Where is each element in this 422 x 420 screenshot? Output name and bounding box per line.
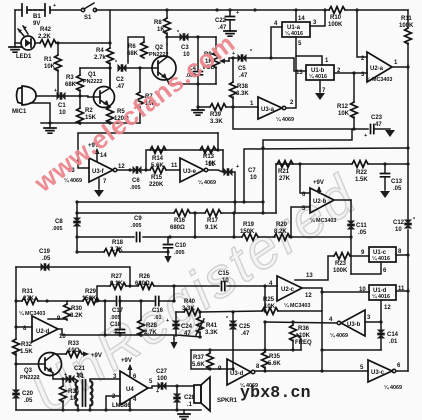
wire mic out (36, 95, 56, 97)
wire U3-e out to C7 (208, 150, 223, 172)
svg-text:¼ 4069: ¼ 4069 (384, 384, 402, 391)
ground C23 (385, 130, 395, 137)
svg-text:U4: U4 (126, 387, 134, 393)
svg-text:C24: C24 (181, 324, 193, 330)
resistor R38 (232, 58, 234, 107)
verticals between rails (195, 213, 234, 237)
resistor R29 (83, 298, 99, 305)
wire battery negative (15, 10, 21, 43)
svg-text:C19: C19 (39, 249, 51, 255)
resistor R23 (334, 253, 350, 260)
resistor R33 (66, 351, 82, 358)
svg-text:5.6K: 5.6K (192, 362, 205, 368)
ground (224, 31, 236, 36)
svg-text:C8: C8 (55, 219, 63, 225)
svg-text:C27: C27 (156, 369, 168, 375)
resistor R15 (150, 167, 166, 174)
transistor Q2 (152, 56, 176, 80)
wire C1 to Q1 base (66, 96, 88, 97)
svg-text:.05: .05 (393, 186, 402, 192)
svg-text:10K: 10K (299, 333, 311, 339)
wire U4 out (148, 386, 194, 388)
resistor R32 (13, 339, 20, 355)
wire U3-a out (286, 56, 296, 108)
svg-text:LM386: LM386 (112, 403, 131, 409)
op-amp U2-a (367, 52, 392, 82)
svg-text:2.7K: 2.7K (110, 247, 123, 253)
resistor R12 (353, 73, 355, 129)
svg-text:C20: C20 (22, 391, 34, 397)
svg-text:1K: 1K (157, 27, 165, 33)
wire C5 to U1 switches (247, 58, 306, 71)
svg-text:10K: 10K (338, 111, 350, 117)
svg-text:C22: C22 (215, 18, 227, 24)
wire Q3 collector to R33 (53, 354, 66, 355)
svg-text:¼ 4069: ¼ 4069 (330, 332, 348, 339)
wire R1 R2 to rail (79, 96, 81, 108)
ground (9, 47, 21, 52)
LED1 (21, 36, 35, 50)
T1 leads (78, 379, 120, 410)
wiper wire to C5 (229, 58, 237, 61)
svg-text:¼ MC3403: ¼ MC3403 (310, 217, 336, 224)
capacitor C9 (137, 233, 140, 242)
svg-text:10Ω: 10Ω (68, 348, 80, 354)
svg-text:5.6K: 5.6K (151, 163, 164, 169)
capacitor C24 (175, 312, 177, 321)
resistor R30 (66, 301, 68, 304)
svg-text:¼ 4016: ¼ 4016 (285, 30, 303, 37)
capacitor C19 (41, 263, 50, 271)
wire U1-d pin11 (396, 290, 408, 292)
bus line B y140 (263, 130, 352, 213)
resistor R19 (242, 234, 258, 241)
svg-text:12: 12 (118, 164, 125, 170)
svg-text:1.5K: 1.5K (355, 177, 368, 183)
svg-text:R10: R10 (330, 15, 342, 21)
capacitor C23 (371, 125, 374, 134)
ground (49, 123, 51, 127)
svg-text:R6: R6 (128, 44, 136, 50)
svg-text:C23: C23 (371, 115, 383, 121)
svg-text:R18: R18 (112, 240, 124, 246)
capacitor C12 (404, 220, 412, 229)
resistor R28 (140, 301, 142, 320)
wire Q1 emitter down (109, 106, 110, 107)
svg-text:R35: R35 (269, 354, 281, 360)
resistor R31 (22, 298, 38, 305)
svg-text:+: + (236, 10, 239, 16)
svg-text:.005: .005 (52, 226, 63, 232)
svg-text:C7: C7 (248, 168, 256, 174)
svg-text:+: + (54, 88, 57, 94)
svg-text:R15: R15 (151, 175, 163, 181)
IC U1-b (306, 65, 334, 80)
rail 2 y213 (77, 212, 276, 214)
svg-text:12: 12 (384, 305, 391, 311)
capacitor C5 (238, 54, 247, 62)
op-amp U2-c (277, 276, 302, 301)
svg-text:14: 14 (298, 16, 305, 22)
svg-text:.47: .47 (239, 73, 248, 79)
speaker SPKR1 (194, 385, 201, 403)
wire U1-b pin2 to U2-a (334, 72, 367, 74)
ground U1-b pin7 (319, 80, 321, 92)
capacitor C15 (222, 282, 225, 291)
svg-text:R36: R36 (298, 326, 310, 332)
svg-text:R4: R4 (96, 48, 104, 54)
svg-text:+: + (64, 372, 67, 378)
resistor R21 (277, 161, 293, 168)
svg-text:9.1K: 9.1K (110, 281, 123, 287)
svg-text:R8: R8 (154, 20, 162, 26)
svg-text:8.2K: 8.2K (70, 313, 83, 319)
inverter U3-e (180, 158, 204, 182)
wire U1-c pin6 (351, 262, 381, 274)
svg-text:S1: S1 (84, 15, 92, 21)
svg-text:R32: R32 (21, 342, 33, 348)
svg-text:C9: C9 (134, 216, 142, 222)
rail 3 y237 (77, 236, 351, 238)
svg-text:680Ω: 680Ω (135, 281, 150, 287)
svg-text:+9V: +9V (91, 353, 102, 359)
wire U1-a pin3 to bus (310, 10, 325, 26)
svg-text:150K: 150K (240, 229, 255, 235)
svg-text:R40: R40 (184, 299, 196, 305)
svg-text:U3-c: U3-c (371, 370, 385, 376)
svg-text:150K: 150K (82, 296, 97, 302)
svg-text:R16: R16 (174, 218, 186, 224)
svg-text:100K: 100K (328, 22, 343, 28)
resistor R35 (264, 286, 266, 371)
op-amp U2-b (310, 188, 334, 213)
svg-text:R20: R20 (276, 222, 288, 228)
svg-text:R26: R26 (139, 274, 151, 280)
wire U4 pin2 (106, 396, 120, 410)
svg-text:FREQ: FREQ (295, 340, 312, 346)
wire U3-b in (365, 321, 381, 323)
svg-text:+9V: +9V (313, 180, 324, 186)
svg-text:+: + (236, 164, 239, 170)
svg-text:.005: .005 (174, 250, 185, 256)
resistor R27 (110, 283, 126, 290)
svg-text:.01: .01 (389, 339, 398, 345)
wire C25 to vertical x265 (264, 310, 266, 312)
svg-text:.05: .05 (24, 398, 33, 404)
center vertical x174 (173, 286, 175, 301)
svg-text:3.3K: 3.3K (210, 119, 223, 125)
wire U1-c pin8 (396, 254, 408, 256)
svg-text:Q2: Q2 (155, 45, 164, 51)
ground bottom rail (183, 410, 185, 413)
svg-text:C15: C15 (218, 271, 230, 277)
potentiometer R36 FREQ (292, 322, 294, 325)
svg-text:ybx8.cn: ybx8.cn (240, 383, 311, 402)
wire U2-a output (392, 66, 408, 68)
svg-text:R42: R42 (40, 27, 52, 33)
svg-text:15K: 15K (85, 115, 97, 121)
svg-text:9.1K: 9.1K (205, 225, 218, 231)
capacitor C11 (350, 200, 352, 274)
svg-text:R12: R12 (337, 104, 349, 110)
wire y350 (191, 349, 301, 351)
capacitor C20 (12, 390, 20, 399)
svg-text:¼ MC3403: ¼ MC3403 (366, 76, 392, 83)
svg-text:C12: C12 (393, 220, 405, 226)
svg-text:R38: R38 (237, 84, 249, 90)
capacitor C28 (176, 386, 178, 410)
svg-text:C14: C14 (387, 332, 399, 338)
svg-text:.005: .005 (110, 315, 121, 321)
wire U3-d input (191, 350, 233, 369)
svg-text:R27: R27 (111, 274, 123, 280)
wire U2-c out (302, 287, 322, 289)
svg-text:100K: 100K (399, 23, 414, 29)
svg-text:10K: 10K (264, 304, 276, 310)
wire oscillator feedback top (78, 133, 218, 168)
svg-text:R21: R21 (278, 169, 290, 175)
svg-text:R17: R17 (207, 218, 219, 224)
resistor R5 (107, 107, 114, 123)
svg-text:100: 100 (157, 376, 168, 382)
amplifier U4 (120, 371, 148, 405)
svg-text:R33: R33 (68, 341, 80, 347)
svg-text:3.3K: 3.3K (182, 306, 195, 312)
resistor R4 (109, 10, 111, 88)
svg-text:47: 47 (184, 331, 191, 337)
svg-text:47: 47 (375, 122, 382, 128)
resistor R3 (79, 68, 81, 96)
svg-text:.05: .05 (42, 256, 51, 262)
svg-text:¼ 4016: ¼ 4016 (372, 255, 390, 262)
inverter U3-c (368, 360, 392, 382)
svg-text:+: + (156, 389, 159, 395)
svg-text:C10: C10 (175, 243, 187, 249)
svg-text:R11: R11 (401, 16, 412, 22)
wire U2-b in5 (291, 207, 310, 237)
svg-text:C25: C25 (239, 324, 251, 330)
svg-text:PN2222: PN2222 (149, 52, 168, 58)
svg-text:100K: 100K (333, 268, 348, 274)
capacitor C25 (232, 312, 234, 369)
wire U4 pin4 (129, 399, 131, 410)
ground U3-f pin7 (98, 179, 100, 189)
svg-text:¼ 4069: ¼ 4069 (198, 179, 216, 186)
resistor R25 (262, 308, 278, 315)
svg-text:10: 10 (395, 227, 402, 233)
wire U2-d out y335 (58, 329, 201, 337)
svg-text:R2: R2 (85, 108, 93, 114)
bus line A y129 (233, 108, 368, 129)
svg-text:R31: R31 (22, 289, 34, 295)
capacitor C6 (133, 166, 142, 174)
resistor R1 (57, 43, 59, 96)
rail 1 y202 (77, 201, 263, 203)
svg-text:.005: .005 (131, 223, 142, 229)
svg-text:10: 10 (250, 175, 257, 181)
svg-text:2.7k: 2.7k (94, 55, 106, 61)
svg-text:R19: R19 (243, 222, 255, 228)
vertical feedback x105 (104, 301, 106, 335)
svg-text:Q3: Q3 (24, 368, 33, 374)
svg-text:U2-c: U2-c (281, 287, 295, 293)
resistor R2 (77, 108, 84, 124)
wire LED to R42 (35, 42, 40, 44)
wire R27/R26/C15 row y286 (97, 286, 277, 301)
svg-text:C11: C11 (356, 223, 367, 229)
svg-text:U3-d: U3-d (230, 371, 244, 377)
wire U3-f out (117, 169, 133, 171)
svg-text:2.2K: 2.2K (38, 34, 51, 40)
svg-text:10K: 10K (44, 64, 56, 70)
svg-text:68K: 68K (127, 51, 139, 57)
inverter U3-f (89, 158, 113, 182)
wire U2-b out to C11 (334, 199, 351, 201)
resistor R10 (329, 7, 345, 14)
svg-text:PN2222: PN2222 (83, 79, 102, 85)
svg-text:12: 12 (305, 293, 312, 299)
capacitor C27 (158, 382, 167, 390)
svg-text:.1: .1 (187, 402, 193, 408)
wire U1-a pin4 (271, 27, 282, 58)
wire U1-a pin5 to U1-b pin1 (296, 37, 322, 65)
resistor R11 (407, 10, 409, 67)
svg-text:¼ MC3403: ¼ MC3403 (284, 302, 310, 309)
wire pin13 to R23 (295, 256, 334, 280)
svg-text:R3: R3 (66, 75, 74, 81)
svg-text:U3-f: U3-f (92, 169, 105, 175)
resistor R16 (174, 210, 190, 217)
svg-text:C17: C17 (112, 308, 124, 314)
left vertical C8 (76, 202, 78, 252)
transistor Q3 (39, 353, 62, 376)
resistor R40 (184, 309, 200, 316)
resistor R37 (209, 350, 211, 353)
svg-text:U2-b: U2-b (313, 199, 327, 205)
svg-text:3.3K: 3.3K (236, 91, 249, 97)
switch S1 (81, 8, 84, 11)
svg-text:.01: .01 (154, 315, 162, 321)
svg-text:R13: R13 (203, 154, 215, 160)
+9V supply arrow (96, 150, 98, 161)
resistor R34 (62, 379, 64, 386)
wire C14 bottom (322, 311, 381, 371)
rail 4 R18 row (77, 251, 168, 253)
inverter U3-d (227, 359, 251, 385)
wire C2 to Q2 base (127, 67, 152, 69)
svg-text:+: + (166, 318, 169, 324)
wire R21 left down (275, 164, 277, 213)
bus line C y148 (244, 148, 408, 202)
ground (192, 110, 204, 115)
battery B1 (22, 4, 45, 16)
svg-text:+: + (364, 133, 367, 139)
resistor R17 (205, 210, 221, 217)
svg-text:C1: C1 (58, 103, 66, 109)
transformer T1 (75, 379, 78, 381)
wire U2-a pin2 (357, 10, 367, 57)
svg-text:220K: 220K (149, 182, 164, 188)
svg-text:U3-b: U3-b (347, 322, 361, 328)
resistor R39 (210, 104, 226, 111)
capacitor C22 (229, 10, 231, 15)
resistor R8 (166, 10, 168, 44)
svg-text:10: 10 (208, 162, 215, 168)
wire R40 row y312 (176, 289, 322, 312)
svg-text:C18: C18 (110, 322, 122, 328)
wire R39 row (198, 106, 258, 108)
svg-text:U2-d: U2-d (36, 329, 50, 335)
svg-text:PN2222: PN2222 (20, 375, 39, 381)
svg-text:R37: R37 (193, 355, 205, 361)
wire C6 to R15 (142, 169, 150, 171)
wire U3-d out row y371 (255, 370, 368, 372)
resistor R26 (138, 283, 154, 290)
svg-text:13: 13 (296, 70, 303, 76)
svg-text:T1: T1 (77, 374, 85, 380)
capacitor C8 (73, 218, 81, 227)
svg-text:R1: R1 (44, 57, 52, 63)
svg-text:R28: R28 (146, 323, 158, 329)
wire mic ground lead (30, 103, 50, 123)
trimmer R41 (199, 312, 201, 317)
svg-text:R22: R22 (356, 170, 368, 176)
resistor R18 (104, 249, 120, 256)
svg-text:680Ω: 680Ω (170, 225, 185, 231)
svg-text:.05: .05 (358, 230, 367, 236)
svg-text:C16: C16 (152, 308, 164, 314)
capacitor C10 (167, 237, 169, 243)
+9V arrow R33 (82, 353, 86, 355)
svg-text:8.2K: 8.2K (274, 229, 287, 235)
svg-text:Q1: Q1 (88, 72, 97, 78)
capacitor C14 (380, 322, 382, 350)
svg-text:¼ 4016: ¼ 4016 (372, 293, 390, 300)
wire down to ground node (197, 84, 199, 107)
svg-text:R29: R29 (85, 289, 97, 295)
svg-text:+: + (53, 3, 56, 9)
svg-text:.47: .47 (116, 84, 125, 90)
wire Q3 emitter (53, 373, 66, 379)
svg-text:R39: R39 (210, 112, 222, 118)
capacitor C3 (180, 33, 189, 41)
IC U1-c (369, 247, 396, 262)
microphone MIC1 (22, 86, 36, 105)
wire top bus +9V (15, 9, 408, 11)
svg-text:.005: .005 (130, 185, 141, 191)
svg-text:1.5K: 1.5K (20, 349, 33, 355)
svg-text:10: 10 (59, 110, 66, 116)
wire U2-b in6 (300, 164, 310, 193)
bottom ground rail (16, 409, 201, 411)
svg-text:C3: C3 (181, 45, 189, 51)
svg-text:27K: 27K (23, 296, 35, 302)
inverter U3-a (258, 97, 282, 119)
transistor Q1 (94, 87, 115, 108)
svg-text:C6: C6 (132, 178, 140, 184)
wire U3-b out left (265, 322, 337, 323)
svg-text:U2-a: U2-a (370, 66, 384, 72)
svg-text:¼ 4016: ¼ 4016 (309, 73, 327, 80)
resistor R42 (40, 40, 56, 47)
svg-text:.47: .47 (241, 331, 250, 337)
right edge vertical (407, 67, 409, 371)
wire U3-a input row (257, 107, 259, 108)
svg-text:LED1: LED1 (16, 54, 32, 60)
svg-text:B1: B1 (33, 14, 41, 20)
svg-text:¼ MC3403: ¼ MC3403 (19, 310, 45, 317)
op-amp U2-d (32, 316, 58, 342)
